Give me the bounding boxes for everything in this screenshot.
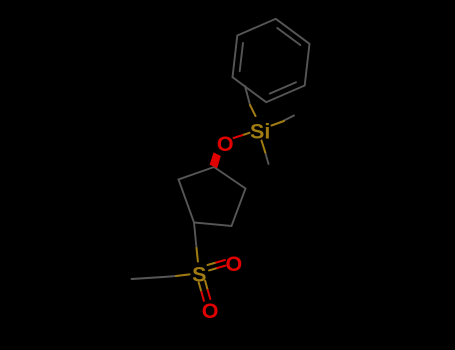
svg-text:S: S — [192, 262, 206, 286]
svg-text:O: O — [202, 299, 219, 323]
svg-text:Si: Si — [250, 120, 270, 144]
svg-text:O: O — [226, 252, 243, 276]
svg-text:O: O — [217, 132, 234, 156]
